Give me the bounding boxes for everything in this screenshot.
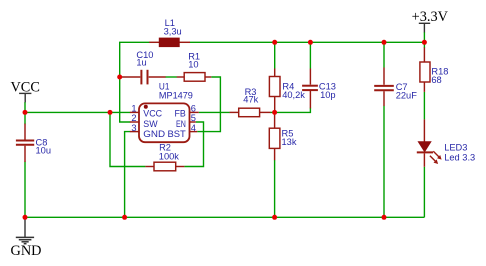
resistor R1 — [177, 52, 212, 82]
svg-text:GND: GND — [11, 243, 42, 259]
pin name VCC — [143, 109, 162, 119]
junction: C10 left node — [117, 75, 122, 80]
svg-text:FB: FB — [175, 109, 186, 119]
wire: VCC horizontal to pin1 — [25, 111, 130, 113]
wire: bottom ground rail — [25, 216, 424, 218]
svg-text:47k: 47k — [243, 95, 258, 105]
pin number 4 — [191, 123, 196, 133]
resistor R5 — [269, 112, 297, 160]
capacitor C8 — [16, 124, 51, 162]
pin 5 stub — [190, 121, 196, 123]
wire: +3.3V tap green — [423, 32, 425, 42]
wire: R18 bottom to LED green — [423, 92, 425, 120]
capacitor C10 — [121, 50, 166, 85]
wire: pin6 FB to R3 — [199, 111, 230, 113]
wire: R18 top green — [423, 42, 425, 48]
capacitor C13 — [302, 69, 336, 109]
pin number 6 — [191, 103, 196, 113]
svg-text:3,3u: 3,3u — [164, 26, 182, 36]
junction: R2 branch node — [108, 110, 113, 115]
svg-text:EN: EN — [176, 119, 186, 129]
svg-text:10u: 10u — [36, 145, 52, 155]
svg-text:100k: 100k — [159, 151, 180, 161]
wire: R4 top from rail — [274, 42, 276, 68]
pin number 1 — [131, 103, 136, 113]
wire: R2 right up to pin5 EN — [184, 122, 203, 167]
junction: rail C13 node — [308, 40, 313, 45]
svg-text:5: 5 — [191, 113, 196, 123]
pin 2 stub — [130, 121, 139, 123]
LED LED3 — [417, 119, 475, 166]
wire: VCC node down to C8 — [24, 112, 26, 124]
svg-text:13k: 13k — [282, 137, 297, 147]
svg-text:6: 6 — [191, 103, 196, 113]
wire: top rail L1 right to +3.3V tap — [190, 41, 425, 43]
resistor R18 — [420, 48, 449, 92]
wire: C13 top from rail — [309, 42, 311, 68]
pin name BST — [168, 129, 187, 139]
power symbol +3.3V — [412, 9, 449, 33]
svg-text:22uF: 22uF — [396, 90, 418, 100]
svg-text:GND: GND — [143, 129, 165, 139]
wire: R2 branch from VCC node down and to R2 left — [110, 112, 145, 166]
svg-text:3: 3 — [131, 123, 136, 133]
svg-text:68: 68 — [431, 75, 441, 85]
svg-text:+3.3V: +3.3V — [412, 9, 449, 25]
wire: C10 to R1 link — [165, 76, 177, 78]
wire: C7 bottom to rail — [383, 106, 385, 218]
junction: rail R4 node — [272, 40, 277, 45]
wire: C7 top from rail — [383, 42, 385, 67]
svg-text:VCC: VCC — [143, 109, 162, 119]
svg-text:1: 1 — [131, 103, 136, 113]
pin number 5 — [191, 113, 196, 123]
junction: rail C7 node — [382, 40, 387, 45]
capacitor C7 — [374, 68, 417, 107]
junction: VCC entry node — [23, 110, 28, 115]
pin 1 stub — [130, 111, 139, 113]
svg-text:10p: 10p — [320, 90, 336, 100]
svg-text:LED3: LED3 — [444, 143, 467, 153]
resistor R4 — [269, 69, 305, 113]
svg-text:2: 2 — [131, 113, 136, 123]
svg-text:SW: SW — [143, 119, 158, 129]
pin 3 stub — [130, 131, 139, 133]
junction: ground rail C7 node — [382, 215, 387, 220]
pin 6 stub — [190, 111, 199, 113]
resistor R3 — [230, 87, 271, 117]
junction: ground rail left node — [23, 215, 28, 220]
pin number 3 — [131, 123, 136, 133]
svg-text:4: 4 — [191, 123, 196, 133]
svg-text:40,2k: 40,2k — [282, 90, 305, 100]
ground symbol GND — [11, 218, 42, 259]
junction: rail +3.3V node — [422, 40, 427, 45]
wire: LED bottom to rail — [423, 167, 425, 218]
svg-text:1u: 1u — [136, 58, 146, 68]
wire: SW net pin2 to top rail — [120, 42, 150, 122]
pin number 2 — [131, 113, 136, 123]
inductor L1 — [149, 18, 190, 47]
pin name EN — [176, 119, 186, 129]
svg-text:10: 10 — [188, 59, 198, 69]
junction: FB node — [272, 110, 277, 115]
junction: ground rail GND-pin node — [122, 215, 127, 220]
wire: R5 bottom to rail — [274, 160, 276, 217]
power symbol VCC — [10, 80, 39, 103]
resistor R2 — [145, 143, 184, 171]
pin name GND — [143, 129, 165, 139]
wire: R1 right to pin4 BST — [197, 77, 220, 132]
svg-text:MP1479: MP1479 — [159, 91, 193, 101]
junction: ground rail R5 node — [272, 215, 277, 220]
pin name FB — [175, 109, 186, 119]
wire: pin3 GND down to rail — [125, 132, 131, 218]
svg-text:BST: BST — [168, 129, 187, 139]
wire: VCC symbol drop — [24, 102, 26, 112]
op-amp U1 MP1479 — [139, 82, 193, 143]
pin 4 stub — [190, 131, 198, 133]
wire: FB node horizontal to C13 bottom — [270, 108, 310, 113]
pin name SW — [143, 119, 158, 129]
wire: C8 bottom to ground rail — [24, 162, 26, 218]
svg-text:Led 3.3: Led 3.3 — [444, 152, 475, 162]
